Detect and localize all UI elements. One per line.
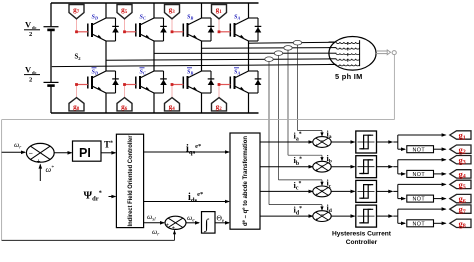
gate flag g6 <box>450 194 471 202</box>
gate line g7 <box>76 19 78 32</box>
node speed reference w* <box>39 165 41 182</box>
svg-text:V: V <box>25 20 32 30</box>
current sensor ia <box>293 40 301 45</box>
gate line g4 <box>171 85 173 98</box>
wire to gate g3 <box>397 160 399 167</box>
svg-text:+: + <box>166 223 169 229</box>
svg-text:−: − <box>321 163 325 169</box>
wire sensor ia feedback <box>297 45 299 131</box>
wire psi_dr* to IFOC <box>109 196 116 198</box>
svg-text:PI: PI <box>79 146 91 160</box>
inverter leg C rail <box>153 3 155 18</box>
hysteresis comparator c <box>356 180 377 202</box>
wire speed feedback bottom <box>2 239 175 241</box>
gate flag g5 <box>450 180 471 188</box>
gate pentagon g7 <box>69 5 84 19</box>
inverter leg A rail <box>248 3 250 18</box>
gate pentagon g5 <box>117 5 132 19</box>
wire error to hysteresis b <box>331 166 355 168</box>
summing junction current a <box>313 137 331 148</box>
diode DC <box>163 18 165 41</box>
current sensor id <box>265 57 273 62</box>
wire theta_e to transformation <box>215 222 229 224</box>
svg-text:5 ph IM: 5 ph IM <box>335 72 363 81</box>
current sensor ib <box>284 46 292 51</box>
battery Vdc/2 upper <box>44 26 59 28</box>
hysteresis comparator d <box>356 205 377 227</box>
wire iqs* <box>144 151 229 153</box>
NOT gate d <box>407 220 434 227</box>
svg-text:2: 2 <box>29 31 32 38</box>
hysteresis comparator a <box>356 131 377 153</box>
d-q to abcde transformation block <box>230 133 260 229</box>
wire speed feedback down <box>393 55 395 120</box>
svg-text:V: V <box>25 65 32 75</box>
gate flag g1 <box>450 131 471 139</box>
wire phase line 2 <box>202 47 360 50</box>
wire to NOT c <box>397 191 399 198</box>
label Vdc/2 lower <box>25 65 37 84</box>
gate line g6 <box>124 85 126 98</box>
diode DCb <box>163 71 165 93</box>
gate pentagon g8 <box>69 98 84 111</box>
stator winding phase 1 <box>329 41 337 43</box>
wire PI to IFOC <box>101 152 115 154</box>
svg-text:NOT: NOT <box>413 147 426 153</box>
IGBT Sbar-B <box>182 77 184 89</box>
svg-text:dc: dc <box>32 25 37 30</box>
top DC bus <box>51 2 259 4</box>
current sensor ic <box>274 51 282 56</box>
wire to gate g5 <box>397 184 399 191</box>
svg-text:+: + <box>172 226 175 232</box>
gate flag g3 <box>450 156 471 164</box>
IGBT SD <box>87 24 89 37</box>
wire speed feedback into slip junction <box>174 230 176 240</box>
battery Vdc/2 lower <box>44 81 59 83</box>
wire phase line 4 <box>106 59 360 61</box>
gate line g3 <box>171 19 173 32</box>
summing junction current c <box>313 186 331 197</box>
svg-text:−: − <box>321 139 325 145</box>
IFOC block <box>116 134 143 227</box>
wire error to hysteresis c <box>331 190 355 192</box>
gate line g8 <box>76 85 78 98</box>
inverter leg D rail <box>105 3 107 18</box>
5-phase induction motor body <box>329 37 376 71</box>
wire hysteresis out b <box>377 166 393 168</box>
speed encoder <box>392 51 396 55</box>
summing junction slip <box>165 216 186 229</box>
wire ids* <box>144 201 229 203</box>
stator winding phase 5 <box>329 63 337 65</box>
IGBT SA <box>229 24 231 37</box>
stator winding phase 3 <box>329 52 337 54</box>
svg-text:dc: dc <box>32 70 37 75</box>
wire sensor ib feedback <box>287 50 289 155</box>
NOT gate a <box>407 146 434 153</box>
wire reference ib* <box>260 166 313 168</box>
shaft coupling arrow <box>387 50 390 55</box>
summing junction speed error <box>26 143 54 162</box>
summing junction current b <box>313 161 331 172</box>
wire w_sl to slip junction <box>144 222 164 224</box>
PI controller <box>73 141 102 161</box>
gate pentagon g2 <box>212 98 227 111</box>
diode DAb <box>257 71 259 93</box>
wire to NOT b <box>397 167 399 174</box>
bottom DC bus <box>51 112 259 114</box>
NOT gate b <box>407 170 434 177</box>
IGBT SB <box>182 24 184 37</box>
wire error to hysteresis d <box>331 215 355 217</box>
gate flag g8 <box>450 219 471 227</box>
diode DA <box>257 18 259 41</box>
motor shaft <box>376 50 387 52</box>
wire error to hysteresis a <box>331 141 355 143</box>
IGBT Sbar-C <box>135 77 137 89</box>
wire to gate g1 <box>397 135 399 142</box>
svg-text:+: + <box>315 168 318 174</box>
gate flag g4 <box>450 170 471 178</box>
svg-text:2: 2 <box>29 77 32 84</box>
svg-text:−: − <box>321 188 325 194</box>
svg-text:Indirect Field Oriented Contro: Indirect Field Oriented Controller <box>127 135 134 227</box>
wire NOT to gate g2 <box>434 148 446 150</box>
gate line g5 <box>124 19 126 32</box>
gate flag g2 <box>450 145 471 153</box>
wire to gate g7 <box>397 209 399 216</box>
IGBT Sbar-D <box>87 77 89 89</box>
IGBT Sbar-A <box>229 77 231 89</box>
gate pentagon g3 <box>165 5 180 19</box>
summing junction current d <box>313 211 331 222</box>
left DC-link rail <box>50 3 52 26</box>
wire sensor id feedback <box>268 62 270 205</box>
gate flag g7 <box>450 205 471 213</box>
svg-text:Hysteresis Current: Hysteresis Current <box>332 230 392 237</box>
svg-text:+: + <box>315 193 318 199</box>
svg-text:NOT: NOT <box>413 197 426 203</box>
wire reference id* <box>260 215 313 217</box>
gate line g2 <box>218 85 220 98</box>
gate pentagon g4 <box>165 98 180 111</box>
svg-text:+: + <box>315 217 318 223</box>
integrator block <box>202 212 216 234</box>
wire NOT to gate g6 <box>434 198 446 200</box>
wire phase line 1 <box>249 42 360 43</box>
wire junction to PI <box>54 152 71 154</box>
svg-text:+: + <box>315 143 318 149</box>
winding terminal bar <box>359 40 361 66</box>
wire NOT to gate g4 <box>434 173 446 175</box>
svg-text:NOT: NOT <box>413 172 426 178</box>
svg-text:NOT: NOT <box>413 221 426 227</box>
wire w_e to integrator <box>186 222 199 224</box>
wire phase line 3 <box>154 52 360 54</box>
diode DD <box>115 18 117 41</box>
stator winding phase 2 <box>329 47 337 49</box>
wire NOT to gate g8 <box>434 222 446 224</box>
wire reference ia* <box>260 141 313 143</box>
IGBT SC <box>135 24 137 37</box>
NOT gate c <box>407 195 434 202</box>
node speed reference input wr <box>2 151 25 153</box>
gate line g1 <box>218 19 220 32</box>
wire speed feedback across top <box>2 119 395 121</box>
wire reference ic* <box>260 190 313 192</box>
wire sensor ic feedback <box>278 56 280 180</box>
inverter leg B rail <box>201 3 203 18</box>
wire hysteresis out c <box>377 190 393 192</box>
svg-text:+: + <box>37 158 41 165</box>
gate pentagon g6 <box>117 98 132 111</box>
diode DB <box>210 18 212 41</box>
hysteresis comparator b <box>356 156 377 178</box>
wire to NOT d <box>397 216 399 223</box>
stator winding phase 4 <box>329 58 337 60</box>
diode DBb <box>210 71 212 93</box>
label Vdc/2 upper <box>25 20 37 39</box>
gate pentagon g1 <box>212 5 227 19</box>
wire hysteresis out a <box>377 141 393 143</box>
svg-text:de – qe to abcde Transformatio: de – qe to abcde Transformation <box>241 136 249 226</box>
wire to NOT a <box>397 142 399 149</box>
svg-text:−: − <box>29 150 33 157</box>
wire hysteresis out d <box>377 215 393 217</box>
wire speed feedback left edge <box>1 120 3 241</box>
svg-text:Controller: Controller <box>346 239 378 246</box>
wire phase line 5 <box>52 64 360 66</box>
diode DDb <box>115 71 117 93</box>
svg-text:−: − <box>321 213 325 219</box>
